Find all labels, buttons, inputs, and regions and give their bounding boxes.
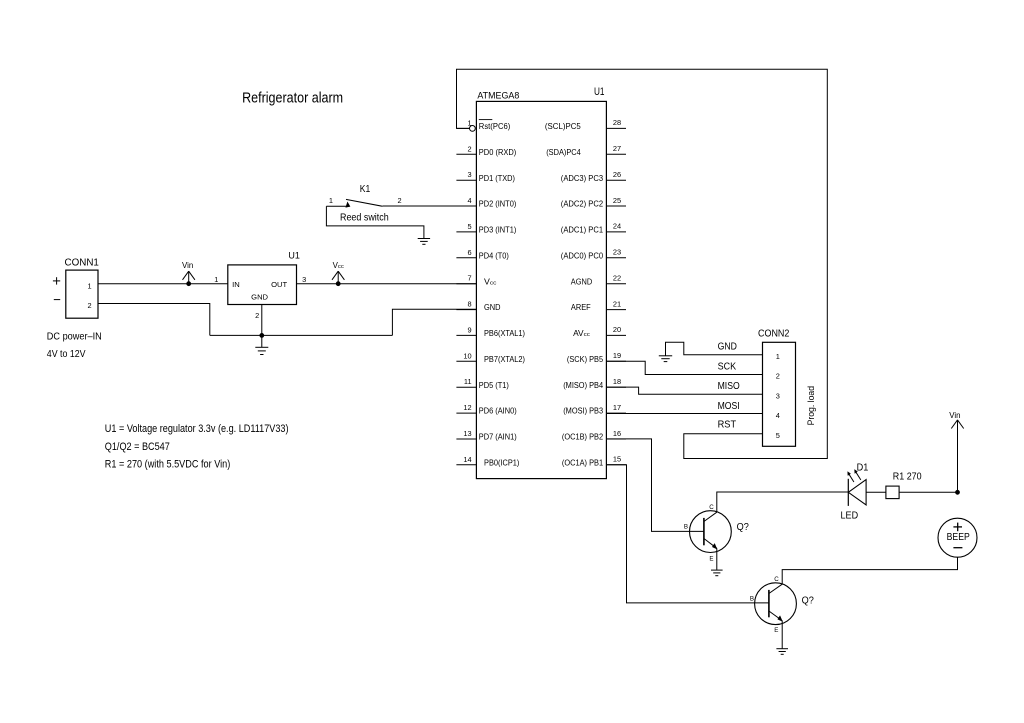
- svg-text:3: 3: [467, 170, 471, 179]
- svg-text:PB6(XTAL1): PB6(XTAL1): [484, 329, 525, 338]
- svg-text:1: 1: [214, 275, 218, 284]
- ground symbol at reed switch: [418, 238, 430, 240]
- svg-text:1: 1: [329, 196, 333, 205]
- svg-text:2: 2: [776, 372, 780, 381]
- svg-text:ATMEGA8: ATMEGA8: [477, 91, 519, 102]
- junction at Vin node: [956, 490, 960, 494]
- U1 pin 24: [561, 222, 626, 235]
- svg-text:PB0(ICP1): PB0(ICP1): [484, 458, 520, 467]
- svg-text:U1: U1: [288, 250, 300, 260]
- svg-text:(ADC0) PC0: (ADC0) PC0: [561, 251, 604, 260]
- svg-text:MOSI: MOSI: [718, 401, 740, 412]
- svg-text:GND: GND: [251, 293, 268, 302]
- svg-text:24: 24: [613, 222, 621, 231]
- svg-text:22: 22: [613, 274, 621, 283]
- svg-text:U1 = Voltage regulator 3.3v (e: U1 = Voltage regulator 3.3v (e.g. LD1117…: [105, 423, 289, 435]
- svg-text:13: 13: [463, 429, 471, 438]
- CONN1 minus terminal mark: [54, 299, 60, 301]
- svg-text:1: 1: [467, 118, 471, 127]
- wire K1.1 to ground: [326, 206, 424, 238]
- U1 pin 17: [563, 403, 626, 416]
- resistor R1: [886, 486, 899, 499]
- wire CONN1.2 to ground bus: [98, 304, 210, 336]
- svg-text:PD3 (INT1): PD3 (INT1): [479, 226, 517, 235]
- svg-text:26: 26: [613, 170, 621, 179]
- U1 pin 11: [456, 377, 509, 390]
- LED D1: [848, 470, 867, 506]
- wire R1 to Vin node: [899, 491, 957, 493]
- power symbol Vin (beeper supply): [949, 411, 963, 492]
- svg-text:19: 19: [613, 351, 621, 360]
- U1 pin 7: [456, 274, 496, 287]
- wire Q1 emitter to ground: [716, 548, 718, 570]
- wire CONN2.1 GND hook: [666, 342, 763, 355]
- U1 pin 3: [456, 170, 515, 183]
- U1 pin 9: [456, 325, 525, 338]
- svg-text:10: 10: [463, 351, 471, 360]
- svg-text:BEEP: BEEP: [947, 532, 970, 543]
- svg-text:PD6 (AIN0): PD6 (AIN0): [479, 407, 517, 416]
- svg-text:1: 1: [776, 352, 780, 361]
- svg-text:DC power–IN: DC power–IN: [47, 331, 102, 343]
- svg-text:(SCK) PB5: (SCK) PB5: [567, 355, 604, 364]
- U1 pin 28: [545, 118, 626, 131]
- svg-text:7: 7: [467, 274, 471, 283]
- svg-text:D1: D1: [857, 462, 869, 473]
- svg-text:25: 25: [613, 196, 621, 205]
- svg-text:3: 3: [776, 391, 780, 400]
- power symbol Vin: [182, 261, 195, 284]
- svg-text:PD2 (INT0): PD2 (INT0): [479, 200, 517, 209]
- connector CONN2: [758, 328, 796, 446]
- svg-text:21: 21: [613, 299, 621, 308]
- svg-text:(OC1B) PB2: (OC1B) PB2: [562, 433, 603, 442]
- svg-text:27: 27: [613, 144, 621, 153]
- svg-text:14: 14: [463, 455, 471, 464]
- buzzer BEEP: [938, 518, 977, 557]
- U1 pin 16: [562, 429, 626, 442]
- ground symbol at Q1 emitter: [711, 569, 723, 571]
- svg-text:GND: GND: [484, 303, 501, 312]
- junction on ground bus: [260, 334, 264, 338]
- svg-text:(OC1A) PB1: (OC1A) PB1: [562, 458, 603, 467]
- IC U1 ATMEGA8 body: [476, 91, 606, 479]
- U1 pin 20: [573, 325, 626, 338]
- wire Q1 collector to LED: [717, 492, 849, 512]
- svg-text:2: 2: [255, 311, 259, 320]
- svg-text:PD0 (RXD): PD0 (RXD): [479, 148, 517, 157]
- wire PB3 pin17 to CONN2.4 (MOSI): [606, 413, 762, 415]
- wire PB4 pin18 to CONN2.3 (MISO): [606, 387, 762, 394]
- ground symbol at CONN2: [659, 355, 672, 357]
- svg-text:PD5 (T1): PD5 (T1): [479, 381, 509, 390]
- wire Q2 emitter to ground: [781, 621, 783, 649]
- ground bus wire: [210, 334, 393, 336]
- svg-text:E: E: [709, 556, 713, 563]
- svg-text:12: 12: [463, 403, 471, 412]
- connector CONN1: [65, 258, 100, 319]
- U1 pin 2: [456, 144, 516, 157]
- svg-text:4: 4: [467, 196, 471, 205]
- svg-text:AREF: AREF: [571, 303, 591, 312]
- svg-text:Q1/Q2 = BC547: Q1/Q2 = BC547: [105, 441, 170, 453]
- U1 pin 27: [546, 144, 626, 157]
- wire U1 OUT to ATMEGA8 Vcc pin7 (Vcc net): [297, 283, 477, 285]
- svg-text:(MOSI) PB3: (MOSI) PB3: [563, 407, 603, 416]
- U1 pin 19: [567, 351, 626, 364]
- ground symbol at Q2 emitter: [776, 648, 788, 650]
- U1 pin 10: [456, 351, 525, 364]
- svg-text:B: B: [684, 524, 688, 531]
- wire CONN1.1 to U1 regulator IN (Vin net): [98, 283, 228, 285]
- U1 pin 25: [561, 196, 626, 209]
- wire K1.2 to ATMEGA8 PD2 pin4: [383, 205, 477, 207]
- svg-text:9: 9: [467, 325, 471, 334]
- svg-text:IN: IN: [232, 280, 240, 289]
- wire PB5 pin19 to CONN2.2 (SCK): [606, 361, 762, 374]
- svg-text:CONN1: CONN1: [65, 258, 100, 269]
- svg-text:U1: U1: [594, 86, 605, 98]
- svg-text:MISO: MISO: [718, 381, 740, 392]
- svg-text:PD1 (TXD): PD1 (TXD): [479, 174, 516, 183]
- wire Q2 collector to beeper: [782, 557, 957, 584]
- svg-text:C: C: [709, 504, 714, 511]
- svg-text:Refrigerator alarm: Refrigerator alarm: [242, 91, 343, 107]
- svg-text:AVcc: AVcc: [573, 329, 590, 338]
- svg-text:11: 11: [464, 377, 472, 386]
- U1 pin 21: [571, 299, 626, 312]
- U1 pin 12: [456, 403, 517, 416]
- ground symbol under U1: [255, 335, 268, 354]
- voltage regulator U1: [228, 250, 300, 304]
- U1 pin 4: [456, 196, 516, 209]
- svg-text:Q?: Q?: [802, 595, 815, 606]
- svg-text:R1 = 270 (with 5.5VDC for Vin): R1 = 270 (with 5.5VDC for Vin): [105, 459, 231, 471]
- svg-text:(SDA)PC4: (SDA)PC4: [546, 148, 581, 157]
- svg-text:Vcc: Vcc: [333, 261, 344, 270]
- U1 pin 26: [561, 170, 626, 183]
- wire LED to R1: [866, 491, 886, 493]
- U1 pin 23: [561, 248, 626, 261]
- junction on Vin net: [187, 282, 191, 286]
- svg-text:R1 270: R1 270: [893, 472, 922, 483]
- wire ground bus to ATMEGA8 GND pin8: [392, 309, 476, 335]
- svg-text:(ADC1) PC1: (ADC1) PC1: [561, 226, 603, 235]
- svg-text:C: C: [774, 576, 779, 583]
- wire U1 GND pin to ground bus: [261, 305, 263, 336]
- svg-text:5: 5: [467, 222, 471, 231]
- svg-text:B: B: [750, 595, 754, 602]
- U1 pin 13: [456, 429, 517, 442]
- svg-text:23: 23: [613, 248, 621, 257]
- svg-text:Vin: Vin: [949, 411, 960, 420]
- svg-text:Reed switch: Reed switch: [340, 213, 389, 224]
- svg-text:Rst(PC6): Rst(PC6): [479, 122, 511, 131]
- svg-text:SCK: SCK: [718, 361, 737, 372]
- power symbol Vcc: [332, 261, 344, 284]
- svg-text:AGND: AGND: [571, 277, 593, 286]
- svg-text:1: 1: [87, 281, 91, 290]
- U1 pin 22: [571, 274, 626, 287]
- svg-text:(ADC3) PC3: (ADC3) PC3: [561, 174, 603, 183]
- svg-text:28: 28: [613, 118, 621, 127]
- svg-text:4: 4: [776, 411, 780, 420]
- svg-text:Vcc: Vcc: [484, 277, 497, 286]
- svg-text:18: 18: [613, 377, 621, 386]
- U1 pin 18: [563, 377, 626, 390]
- junction on Vcc net: [336, 282, 340, 286]
- svg-text:2: 2: [467, 144, 471, 153]
- svg-text:PD4 (T0): PD4 (T0): [479, 251, 509, 260]
- transistor Q1: [684, 504, 731, 563]
- U1 pin 1: [457, 118, 511, 131]
- U1 pin 6: [456, 248, 509, 261]
- wire Rst pin1 loop to CONN2 RST: [457, 69, 828, 458]
- U1 pin 8: [456, 300, 500, 313]
- svg-text:2: 2: [87, 301, 91, 310]
- svg-text:GND: GND: [718, 342, 737, 353]
- svg-text:RST: RST: [718, 420, 737, 431]
- svg-text:Prog. load: Prog. load: [806, 386, 817, 425]
- svg-text:6: 6: [467, 248, 471, 257]
- svg-text:17: 17: [613, 403, 621, 412]
- transistor Q2: [750, 576, 796, 634]
- U1 pin 5: [456, 222, 516, 235]
- svg-text:PB7(XTAL2): PB7(XTAL2): [484, 355, 525, 364]
- svg-text:16: 16: [613, 429, 621, 438]
- svg-text:2: 2: [398, 196, 402, 205]
- U1 pin 14: [456, 455, 519, 468]
- wire PB1 pin15 to Q2 base: [606, 465, 769, 603]
- svg-text:E: E: [774, 627, 778, 634]
- svg-text:20: 20: [613, 325, 621, 334]
- svg-text:PD7 (AIN1): PD7 (AIN1): [479, 433, 517, 442]
- svg-text:8: 8: [467, 300, 471, 309]
- svg-text:15: 15: [613, 455, 621, 464]
- U1 pin 15: [562, 455, 626, 468]
- svg-text:Vin: Vin: [182, 261, 193, 270]
- svg-text:Q?: Q?: [737, 522, 750, 533]
- svg-text:CONN2: CONN2: [758, 328, 790, 339]
- CONN1 plus terminal mark: [53, 277, 60, 284]
- wire PB2 pin16 to Q1 base: [606, 439, 704, 532]
- svg-text:(SCL)PC5: (SCL)PC5: [545, 122, 582, 131]
- switch K1 reed switch: [326, 184, 401, 224]
- svg-text:5: 5: [776, 431, 780, 440]
- svg-text:K1: K1: [360, 184, 371, 195]
- svg-text:3: 3: [302, 275, 306, 284]
- svg-text:(MISO) PB4: (MISO) PB4: [563, 381, 604, 390]
- svg-text:4V to 12V: 4V to 12V: [47, 349, 86, 360]
- svg-text:LED: LED: [841, 511, 859, 522]
- svg-text:OUT: OUT: [271, 280, 287, 289]
- svg-text:(ADC2) PC2: (ADC2) PC2: [561, 200, 603, 209]
